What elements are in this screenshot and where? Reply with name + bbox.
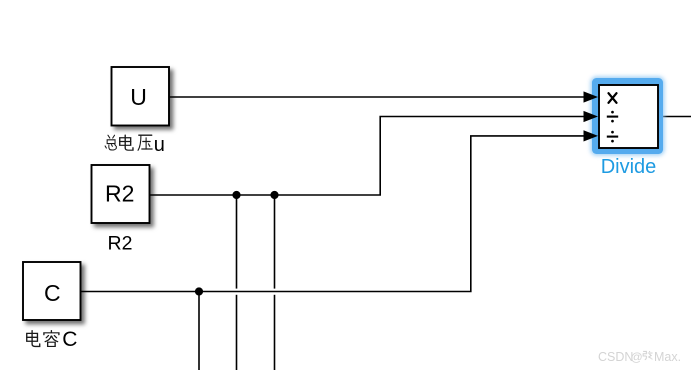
wire branch vertical from C-wire junction down xyxy=(198,292,200,370)
arrowhead into Divide in1 xyxy=(584,91,599,102)
multiply symbol x (port 1) xyxy=(609,93,617,103)
junction dot on R2 wire (right) xyxy=(270,191,278,199)
label 电容C under C block : hand-drawn CJK strokes xyxy=(27,331,59,347)
svg-text:U: U xyxy=(130,84,147,110)
block C (constant 电容C) xyxy=(23,262,81,320)
CJK char 电 xyxy=(27,331,40,347)
wire Divide output xyxy=(661,116,691,118)
svg-text:C: C xyxy=(62,328,77,351)
divide symbol (port 3) xyxy=(607,131,618,143)
arrowhead into Divide in2 xyxy=(584,111,599,122)
block U (constant 总电压u) xyxy=(112,67,170,126)
svg-text:Max.: Max. xyxy=(654,350,681,364)
block R2 (constant) xyxy=(92,165,150,223)
wire branch vertical 1 from R2-wire junction down (gap at C-wire crossing) xyxy=(236,195,238,370)
junction dot on R2 wire (left) xyxy=(232,191,240,199)
wire C output: right, up, right to Divide in3 xyxy=(81,136,585,292)
arrowhead into Divide in3 xyxy=(584,130,599,141)
watermark CSDN @弦Max. xyxy=(598,350,681,364)
CJK char 容 xyxy=(44,331,59,347)
label 总电压u under U block : hand-drawn CJK strokes xyxy=(105,135,152,150)
CJK char 压 xyxy=(138,135,152,150)
svg-text:@: @ xyxy=(631,350,643,364)
CJK char 弦 (light) xyxy=(643,351,652,360)
wire branch vertical 2 from R2-wire junction down (gap at C-wire crossing) xyxy=(274,195,276,370)
CJK char 电 xyxy=(120,135,133,150)
wire R2 output: right, up, right to Divide in2 xyxy=(150,117,585,196)
wire U output to Divide in1 xyxy=(169,96,585,98)
op block Divide xyxy=(599,85,658,148)
divide symbol (port 2) xyxy=(607,111,618,123)
svg-text:Divide: Divide xyxy=(601,156,657,178)
CJK char 总 xyxy=(105,135,116,150)
svg-text:u: u xyxy=(154,134,165,156)
svg-text:C: C xyxy=(44,280,61,306)
svg-text:R2: R2 xyxy=(105,181,134,207)
Divide block selection highlight (blue frame) xyxy=(591,77,665,156)
junction dot on C wire xyxy=(195,287,203,295)
svg-text:R2: R2 xyxy=(108,233,133,255)
svg-text:CSDN: CSDN xyxy=(598,350,633,364)
